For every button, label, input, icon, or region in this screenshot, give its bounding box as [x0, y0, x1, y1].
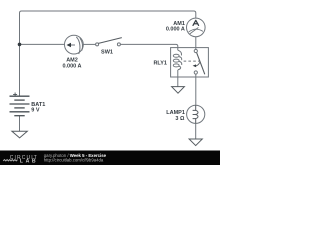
svg-text:LAB: LAB	[20, 158, 38, 164]
svg-text:RLY1: RLY1	[153, 61, 167, 67]
svg-text:9 V: 9 V	[31, 108, 40, 114]
svg-text:SW1: SW1	[101, 50, 113, 56]
svg-text:http://circuitlab.com/c/f9b9a4: http://circuitlab.com/c/f9b9a4da	[44, 158, 104, 163]
svg-text:0.000 A: 0.000 A	[62, 63, 81, 69]
svg-text:3 Ω: 3 Ω	[175, 116, 185, 122]
svg-text:0.000 A: 0.000 A	[166, 27, 185, 33]
